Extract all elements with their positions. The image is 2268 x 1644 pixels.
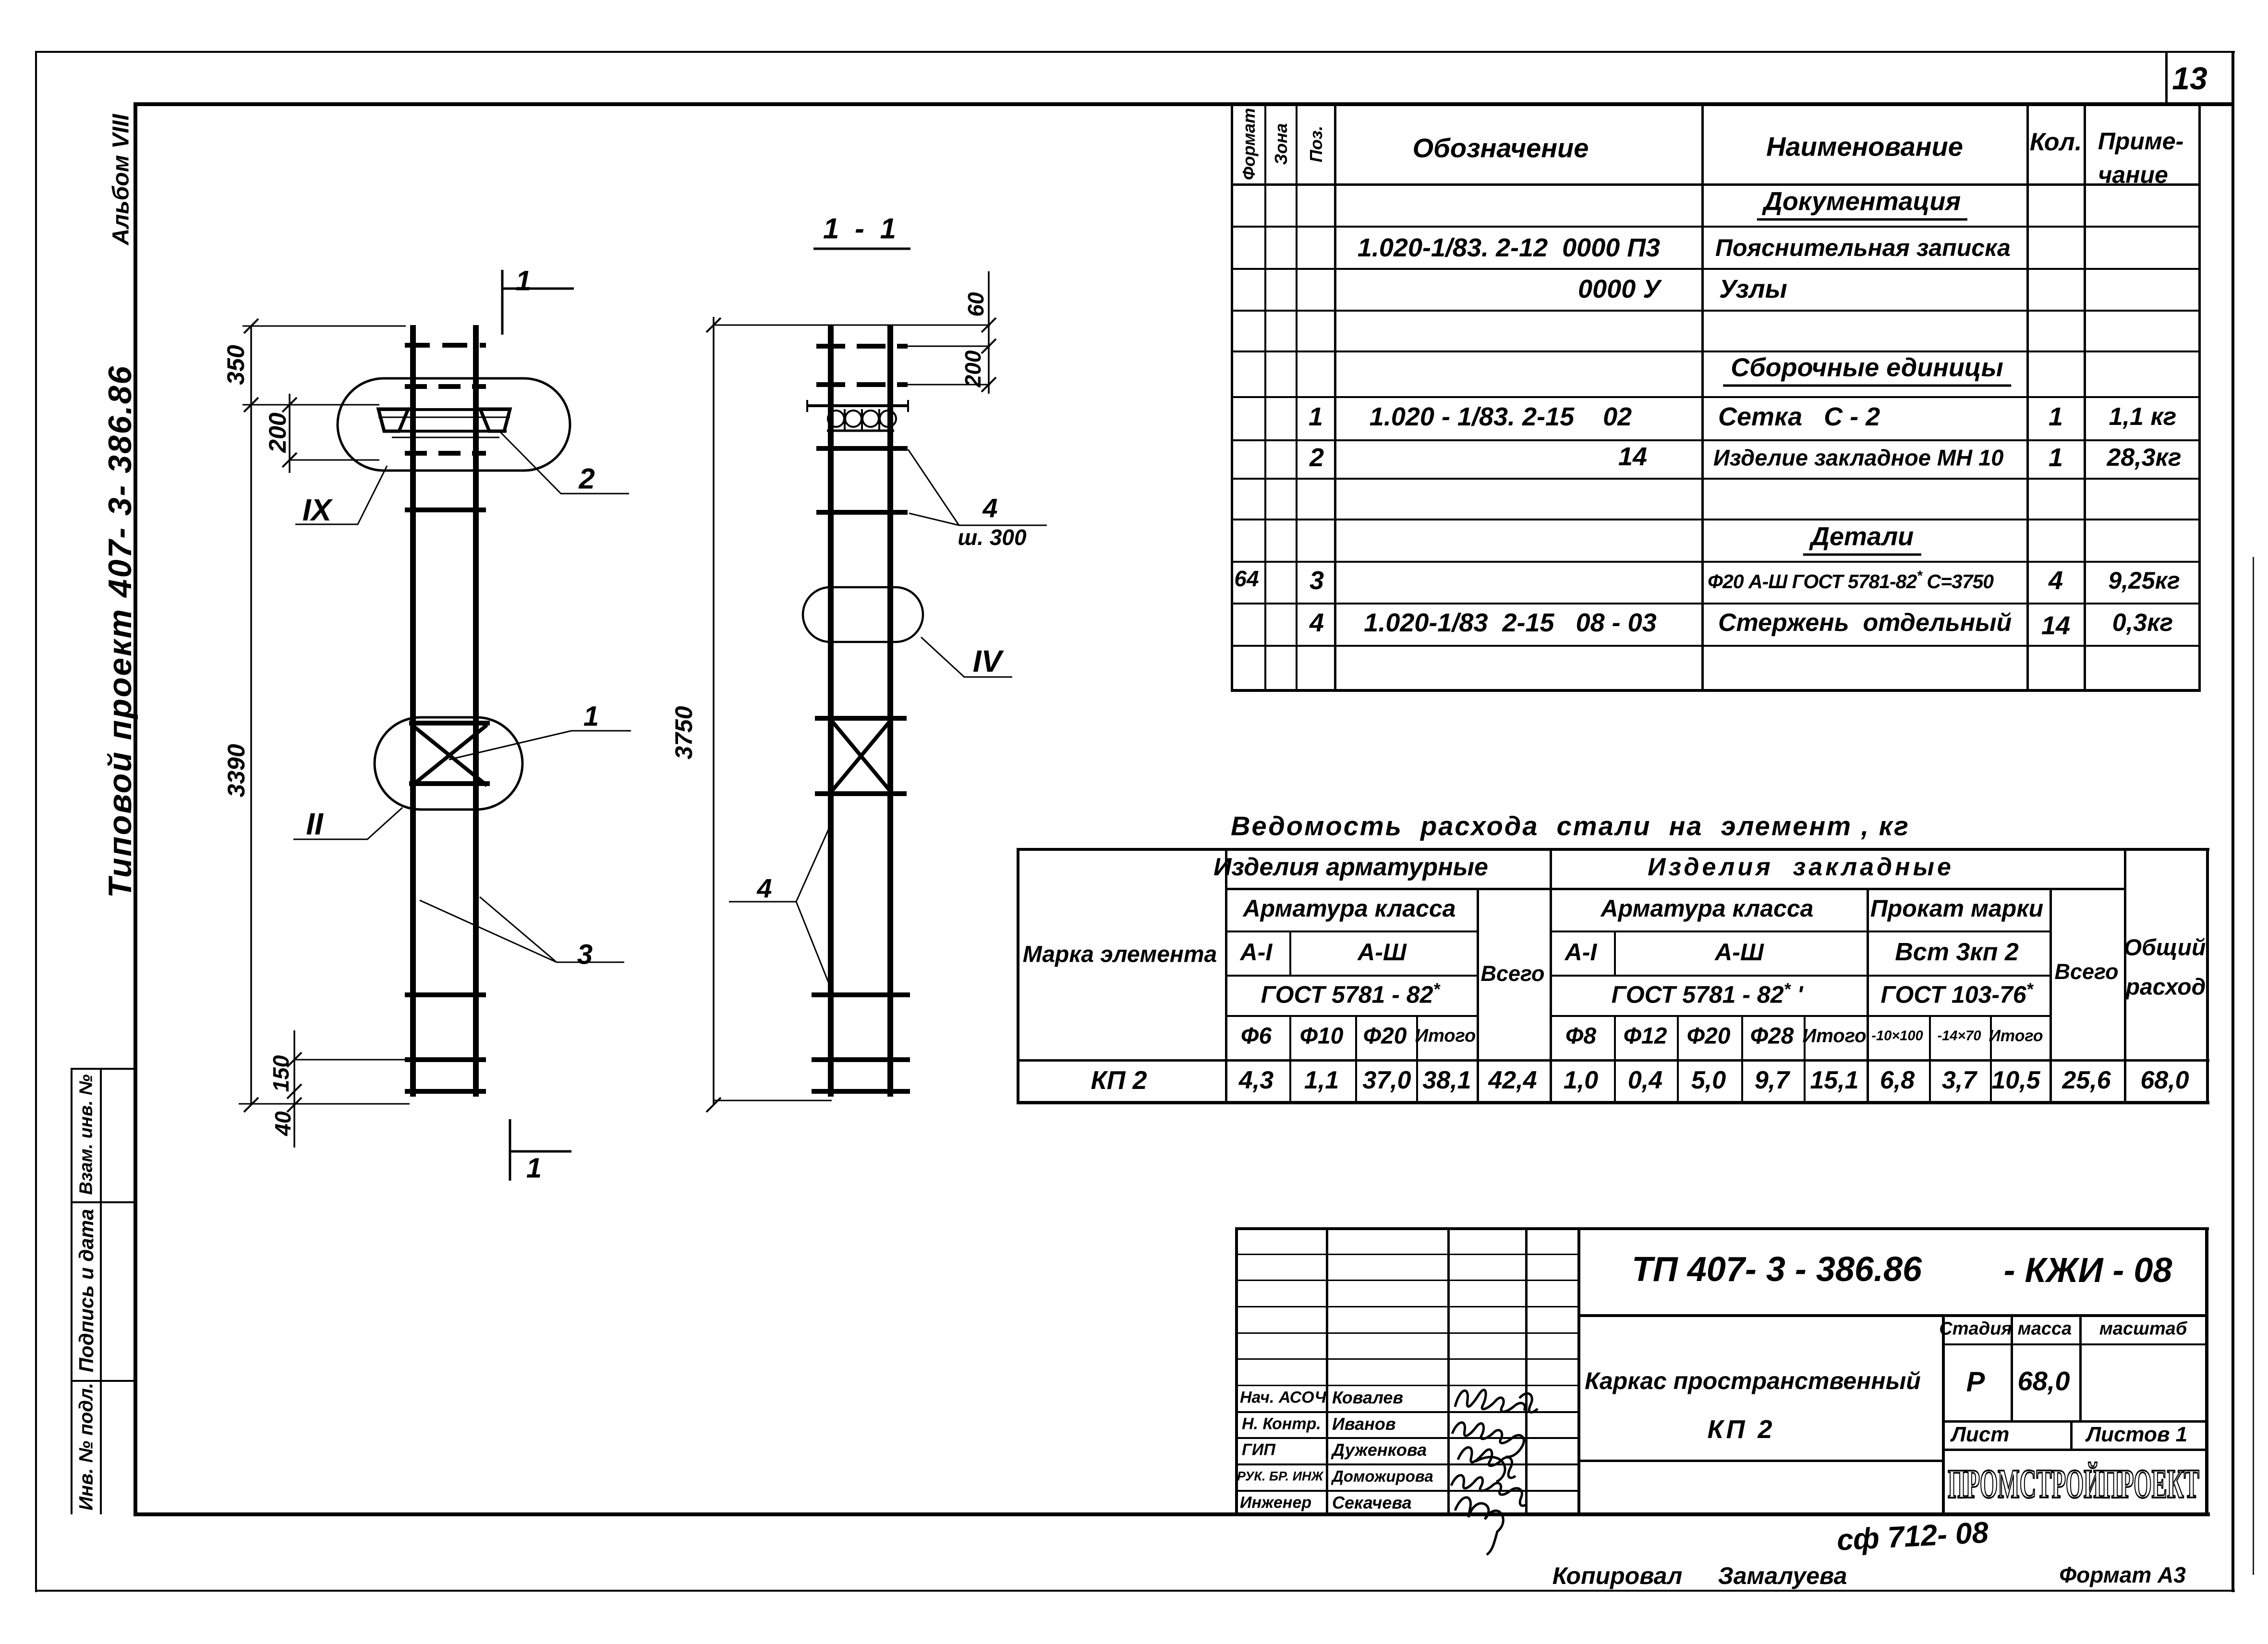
spec col line 5 bbox=[1701, 105, 1704, 691]
ved header itogoR2 bbox=[1989, 1027, 2043, 1046]
ved vert AIII-prokat bbox=[1867, 888, 1869, 1104]
extension line y958 bbox=[290, 459, 379, 461]
tb right: line under headers bbox=[1942, 1343, 2208, 1345]
tb outline right bbox=[2205, 1227, 2208, 1516]
dim 60-200 ticks bbox=[982, 318, 996, 392]
spec col line 3 bbox=[1296, 105, 1298, 691]
right section: rebar bar right bbox=[887, 325, 893, 1097]
spec col line 7 bbox=[2084, 105, 2086, 691]
spec row line 1 bbox=[1231, 226, 2201, 228]
ved vert f6-f10 bbox=[1289, 931, 1291, 975]
sheet number box divider bbox=[2165, 53, 2168, 105]
left elevation: rebar bar right bbox=[473, 325, 479, 1097]
outer border top bbox=[35, 51, 2235, 53]
ved vert f20 right bbox=[1741, 1015, 1743, 1104]
spec row sterzhen bbox=[1310, 608, 1324, 638]
ved header A-III L bbox=[1358, 938, 1407, 966]
right section: tie y2072 bbox=[812, 992, 910, 997]
embedded part MN10 right clip bbox=[480, 409, 510, 431]
ved header bottom line bbox=[1017, 1059, 2209, 1062]
tb row ruk br inzh bbox=[1237, 1469, 1323, 1484]
signature squiggle 3 bbox=[1458, 1447, 1516, 1482]
dim label 3390 bbox=[222, 744, 250, 797]
dim label 3750 bbox=[670, 706, 698, 759]
label II leader bbox=[293, 808, 402, 839]
tb outline left bbox=[1235, 1227, 1238, 1516]
extension line y843 bbox=[243, 404, 379, 406]
extension line y721 right bbox=[908, 346, 990, 347]
tb outline top bbox=[1235, 1227, 2209, 1230]
ved line under GOST R bbox=[1550, 1015, 2051, 1017]
spec row line 9 bbox=[1231, 561, 2201, 563]
dim label 200 right bbox=[960, 351, 986, 387]
ved vert AI right bbox=[1614, 931, 1616, 975]
tb left rows bbox=[1235, 1254, 1577, 1255]
signature squiggle 4 bbox=[1451, 1475, 1526, 1506]
spec col line 2 bbox=[1264, 105, 1266, 691]
label inv n podl bbox=[76, 1383, 97, 1511]
ved vert vsego right col bbox=[2124, 848, 2126, 1104]
dim line 3390 vertical bbox=[250, 326, 252, 1105]
ved header prokat marki bbox=[1870, 895, 2043, 922]
label IX bbox=[303, 492, 331, 528]
extension line y2299 bbox=[239, 1103, 410, 1105]
ved header A-I R bbox=[1565, 938, 1597, 966]
tb value P bbox=[1966, 1366, 1985, 1398]
ved line under A-I A-III L bbox=[1225, 975, 1479, 977]
dim label 40 bbox=[270, 1111, 296, 1136]
spec row setka bbox=[1309, 402, 1323, 432]
right section: tie y1067 bbox=[816, 510, 908, 515]
extension line y677 bbox=[714, 325, 990, 326]
ved header A-III R bbox=[1715, 938, 1764, 966]
X-brace oval II bbox=[375, 717, 522, 810]
left elevation: rebar bar left bbox=[410, 325, 416, 1097]
dim label 350 bbox=[222, 345, 250, 385]
format A3 label bbox=[2059, 1562, 2186, 1588]
tb vert col1 bbox=[1326, 1227, 1328, 1516]
embedded part MN10 left clip bbox=[378, 409, 408, 431]
ved vert f28 right bbox=[1804, 1015, 1806, 1104]
tb header massa bbox=[2018, 1319, 2072, 1340]
spec col line 4 bbox=[1334, 105, 1336, 691]
ved vert 14x70 right bbox=[1990, 1015, 1992, 1104]
ved header f20L bbox=[1363, 1023, 1407, 1050]
mesh wire circles bbox=[828, 411, 844, 427]
tb row nach asoch bbox=[1240, 1389, 1326, 1407]
left elevation: tie y2273 bbox=[405, 1089, 486, 1094]
dim 200 ticks bbox=[282, 398, 297, 467]
section mark 1 top bbox=[502, 270, 574, 335]
right section: tie y934 bbox=[816, 446, 908, 451]
tb right: line under P 68.0 bbox=[1942, 1420, 2208, 1423]
right section: tie y2273 bbox=[812, 1089, 910, 1094]
spec col line 8 (right edge) bbox=[2198, 105, 2201, 691]
extension line y801 right bbox=[908, 384, 990, 386]
dim line 200 vertical bbox=[289, 394, 291, 473]
label IX leader bbox=[295, 466, 387, 524]
tb header masshtab bbox=[2099, 1319, 2187, 1340]
label IV leader bbox=[921, 637, 1012, 677]
tb vert col3 bbox=[1525, 1227, 1528, 1516]
title 1-1 bbox=[823, 212, 900, 245]
callout 3 leaders bbox=[420, 897, 624, 962]
left elevation: tie y805 (dashed) bbox=[405, 384, 486, 389]
ved vert vsego left col bbox=[1477, 888, 1479, 1104]
left margin: project label (rotated) bbox=[101, 365, 139, 898]
spec row line 5 bbox=[1231, 396, 2201, 398]
ved header f6 bbox=[1241, 1023, 1272, 1050]
ved header marka elementa bbox=[1023, 942, 1217, 968]
dim line 60-200 vertical bbox=[988, 271, 990, 394]
X-brace diagonal 2 bbox=[412, 725, 487, 786]
tb name KP2 bbox=[1707, 1414, 1775, 1444]
ved outline top bbox=[1017, 848, 2209, 851]
ved header armatura klassa R bbox=[1601, 895, 1814, 922]
dim line 3750 vertical bbox=[713, 317, 715, 1105]
ved vert marka right bbox=[1225, 848, 1227, 1104]
signature squiggle 2 bbox=[1452, 1423, 1524, 1457]
outer border bottom bbox=[35, 1590, 2235, 1592]
extension line y679 bbox=[243, 326, 406, 327]
right section: tie y721 (dashed) bbox=[816, 344, 908, 349]
ved outline bottom bbox=[1017, 1101, 2209, 1104]
spec row poyasnit zapiska bbox=[1358, 233, 1660, 263]
extension line y2207 left bbox=[294, 1059, 405, 1061]
ved line under A-I A-III R bbox=[1550, 975, 2051, 977]
section digit 1 top bbox=[516, 265, 531, 297]
ved header f12 bbox=[1624, 1023, 1667, 1050]
ved header obshij rashod bbox=[2124, 935, 2206, 961]
spec header: kol bbox=[2030, 128, 2082, 157]
tb name karkas bbox=[1585, 1367, 1921, 1395]
callout 4 lower leaders bbox=[729, 820, 833, 993]
mesh plate end ticks bbox=[807, 400, 908, 412]
left elevation: tie y2207 bbox=[405, 1057, 486, 1062]
detail oval IV bbox=[803, 587, 923, 642]
signature squiggle 5 bbox=[1455, 1498, 1503, 1555]
ved header f28 bbox=[1750, 1023, 1794, 1050]
tb designation TP 407-3-386.86 bbox=[1632, 1250, 1922, 1289]
dim label 150 bbox=[268, 1055, 294, 1092]
spec header: oboznachenie bbox=[1413, 133, 1589, 164]
tb promstroyproekt stencil bbox=[1948, 1460, 2199, 1508]
handwritten stamp sf 712-08 bbox=[1836, 1515, 1989, 1557]
ved header GOST R2 bbox=[1880, 979, 2033, 1009]
left elevation: tie y1062 bbox=[405, 508, 486, 512]
spec col line 6 bbox=[2026, 105, 2029, 691]
spec header: zona (rotated) bbox=[1271, 123, 1291, 165]
callout digit 4 lower bbox=[757, 873, 772, 904]
ved vert f20-itogo bbox=[1416, 1015, 1418, 1104]
dim 3750 end ticks bbox=[706, 318, 721, 1112]
dim label 200 left bbox=[264, 412, 291, 452]
tb listov 1 bbox=[2086, 1423, 2187, 1447]
tb right: line under list bbox=[1942, 1449, 2208, 1451]
tb right: stadia-massa divider bbox=[2011, 1314, 2013, 1420]
right section: rebar bar left bbox=[828, 325, 834, 1097]
tb right: massa-masshtab divider bbox=[2079, 1314, 2082, 1420]
callout digit 1 bbox=[583, 701, 599, 733]
tb designation KZHI-08 bbox=[2004, 1251, 2172, 1290]
right X-brace diagonal 1 bbox=[831, 720, 891, 792]
outer border right bbox=[2232, 51, 2234, 1592]
inner frame top bbox=[133, 102, 2233, 106]
ved vert prokat right bbox=[2050, 888, 2052, 1104]
ved vert f10-f20 bbox=[1355, 1015, 1357, 1104]
callout 1 leader bbox=[449, 731, 631, 760]
ved line under group headers bbox=[1225, 888, 2126, 890]
ved header GOST L bbox=[1261, 979, 1440, 1009]
tb list bbox=[1952, 1423, 2010, 1447]
left margin strip: top line bbox=[71, 1068, 135, 1070]
kopiroval label bbox=[1552, 1562, 1683, 1590]
ved header Vst3kp2 bbox=[1895, 938, 2019, 967]
ved header f8 bbox=[1565, 1023, 1596, 1050]
label IV bbox=[973, 643, 1002, 679]
tb row gip bbox=[1242, 1441, 1275, 1460]
right section: tie y801 (dashed) bbox=[816, 382, 908, 387]
spec row izdelie zakladnoe bbox=[1310, 443, 1324, 472]
signature squiggle 1 bbox=[1455, 1390, 1538, 1413]
dim 3390 end ticks bbox=[244, 319, 258, 1112]
spec header bottom bbox=[1231, 183, 2201, 186]
mesh plate top line bbox=[807, 404, 909, 407]
left elevation: tie y719 (dashed) bbox=[405, 343, 486, 348]
bottom extension line y2292 bbox=[714, 1100, 832, 1101]
spec row line 10 bbox=[1231, 603, 2201, 604]
ved header f10 bbox=[1300, 1023, 1344, 1050]
tb row inzhener bbox=[1240, 1494, 1311, 1512]
spec row uzly bbox=[1578, 274, 1661, 304]
ved header izdeliya zakladnye bbox=[1648, 853, 1954, 882]
left elevation: tie y944 (dashed) bbox=[405, 451, 486, 456]
ved header itogoR1 bbox=[1802, 1026, 1866, 1047]
ved header armatura klassa L bbox=[1243, 895, 1456, 922]
outer border left bbox=[35, 51, 37, 1592]
detail oval IX bbox=[338, 378, 570, 471]
label podpis i data bbox=[75, 1209, 98, 1372]
X-brace top tie bbox=[409, 721, 490, 725]
left margin strip: line 2 bbox=[71, 1201, 135, 1203]
X-brace bottom tie bbox=[409, 781, 490, 786]
tb middle: line under designation bbox=[1577, 1314, 2208, 1317]
callout 2 leader bbox=[500, 432, 629, 494]
ved line under GOST L bbox=[1225, 1015, 1479, 1017]
left margin: album label (rotated) bbox=[108, 114, 134, 245]
spec row line 2 bbox=[1231, 268, 2201, 270]
mesh plate bottom line bbox=[827, 430, 894, 432]
ved header -14x70 bbox=[1937, 1028, 1981, 1044]
spec row line 6 bbox=[1231, 439, 2201, 441]
faint duplicate right edge line bbox=[2253, 557, 2254, 1575]
right section: tie y2207 bbox=[812, 1057, 910, 1062]
label II bbox=[306, 806, 323, 842]
ved outline left bbox=[1017, 848, 1019, 1104]
X-brace diagonal 1 bbox=[412, 725, 487, 786]
kopiroval name bbox=[1718, 1562, 1847, 1590]
spec header: poz (rotated) bbox=[1306, 126, 1326, 162]
callout 4 upper leaders bbox=[908, 449, 1047, 525]
right X-brace top tie bbox=[815, 716, 907, 721]
tb value 68.0 bbox=[2018, 1366, 2070, 1397]
ved vert f12 right bbox=[1677, 1015, 1679, 1104]
spec row line 4 bbox=[1231, 351, 2201, 352]
spec row line 7 bbox=[1231, 478, 2201, 480]
ved header -10x100 bbox=[1871, 1028, 1923, 1044]
spec table bottom bbox=[1231, 689, 2201, 692]
spec row f20 bbox=[1234, 566, 1259, 592]
section digit 1 bottom bbox=[526, 1152, 542, 1185]
spec header: primechanie bbox=[2098, 127, 2184, 155]
spec row line 11 bbox=[1231, 645, 2201, 647]
ved header itogoL bbox=[1415, 1026, 1476, 1047]
dim line 150-40 vertical bbox=[293, 1030, 295, 1148]
right X-brace diagonal 2 bbox=[831, 720, 891, 792]
tb middle: line under name bbox=[1577, 1460, 1945, 1462]
callout digit 4 upper bbox=[982, 493, 997, 524]
inner frame left bbox=[133, 102, 137, 1516]
section mark 1 bottom bbox=[510, 1119, 571, 1181]
ved header A-I L bbox=[1240, 938, 1273, 966]
ved header f20R bbox=[1687, 1023, 1731, 1050]
dim label 60 bbox=[963, 292, 989, 316]
tb vert col2 bbox=[1447, 1227, 1450, 1516]
ved header vsego L bbox=[1481, 961, 1545, 986]
left elevation: tie y2072 bbox=[405, 992, 486, 997]
tb header stadia bbox=[1939, 1319, 2012, 1340]
tb vert col4 (middle section left) bbox=[1577, 1227, 1580, 1516]
spec header: format (rotated) bbox=[1239, 108, 1259, 180]
dim 150-40 ticks bbox=[287, 1052, 302, 1112]
ved vert group divider bbox=[1550, 848, 1552, 1104]
embedded part MN10 top plate lines bbox=[378, 408, 510, 411]
tb row n kontr bbox=[1242, 1415, 1321, 1434]
spec col line 1 (left edge) bbox=[1231, 105, 1233, 691]
ved header GOST R1 bbox=[1612, 979, 1803, 1009]
spec row sborochnye edinicy bbox=[1723, 353, 2011, 387]
inner frame bottom bbox=[133, 1512, 2210, 1516]
spec row detali bbox=[1803, 522, 1921, 556]
tb right: list-listov divider bbox=[2070, 1420, 2073, 1451]
tb right section left edge bbox=[1942, 1314, 1945, 1516]
ved line under armatura klassa L bbox=[1225, 931, 1479, 932]
spec row line 8 bbox=[1231, 519, 2201, 520]
callout digit 3 bbox=[577, 939, 593, 971]
spec header: naimenovanie bbox=[1766, 131, 1963, 162]
spec row dokumentacia bbox=[1757, 187, 1967, 221]
label sh300 bbox=[958, 524, 1026, 550]
spec row line 3 bbox=[1231, 310, 2201, 312]
mesh vertical hatches bbox=[845, 409, 879, 430]
ved header izdeliya armaturnye bbox=[1213, 853, 1488, 882]
ved vert 10x100 right bbox=[1929, 1015, 1931, 1104]
ved line under armatura klassa R bbox=[1550, 931, 2051, 932]
ved data row bbox=[1091, 1065, 1147, 1095]
left margin strip: line 3 bbox=[71, 1380, 135, 1382]
title 1-1 underline bbox=[813, 248, 910, 250]
label vzam inv bbox=[76, 1075, 97, 1195]
vedomost title bbox=[1231, 810, 1910, 842]
right X-brace bottom tie bbox=[815, 791, 907, 796]
left margin strip: divider bbox=[100, 1068, 102, 1514]
sheet number 13 bbox=[2172, 60, 2207, 97]
callout digit 2 bbox=[579, 462, 594, 496]
ved header vsego R bbox=[2055, 959, 2119, 984]
left margin strip: left edge bbox=[71, 1068, 73, 1514]
ved outline right bbox=[2206, 848, 2209, 1104]
embedded part MN10 bottom plate lines bbox=[384, 430, 507, 433]
